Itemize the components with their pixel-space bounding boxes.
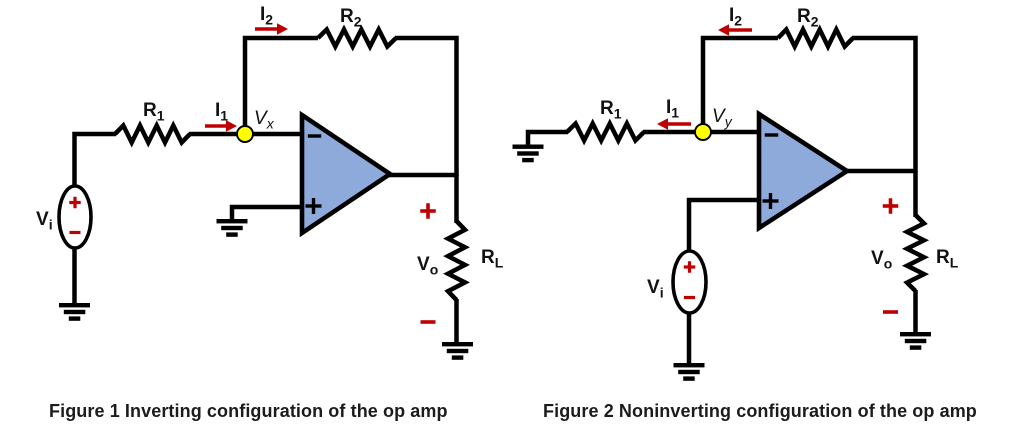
voltage source Vi (fig1) — [59, 186, 91, 248]
ground (left fig2) — [513, 145, 544, 163]
label - polarity Vo (fig2) — [883, 310, 898, 314]
wire: Vi to ground (fig1) — [72, 248, 77, 305]
svg-text:Figure 1 Inverting configurati: Figure 1 Inverting configuration of the … — [49, 401, 448, 421]
wire: top feedback right segment (fig2) — [852, 38, 916, 172]
ground (RL fig2) — [900, 332, 931, 350]
wire: op-amp + input to Vi (fig2) — [689, 200, 759, 252]
ground (Vi fig2) — [674, 363, 705, 381]
label + polarity Vo (fig1) — [420, 203, 436, 219]
resistor R1 (fig1) — [115, 126, 190, 143]
wire: left ground stub to R1 (fig2) — [528, 132, 568, 146]
wire: output down to RL (fig2) — [913, 171, 918, 217]
current arrow I2 fig2 — [718, 24, 752, 36]
wire: top feedback right segment (fig1) — [395, 38, 457, 176]
label - polarity Vo (fig1) — [421, 320, 436, 324]
op-amp U2 (fig2) — [759, 114, 847, 228]
current arrow I1 fig2 — [657, 118, 691, 130]
ground (+input fig1) — [217, 219, 248, 237]
label + polarity Vo (fig2) — [883, 198, 899, 214]
wire: node Vx to op-amp inverting input — [245, 132, 302, 137]
resistor RL (fig1) — [448, 221, 465, 300]
wire: feedback riser from node Vy — [701, 36, 706, 132]
wire: RL to ground (fig2) — [913, 290, 918, 334]
voltage source Vi (fig2) — [673, 251, 706, 313]
ground (Vi fig1) — [59, 303, 90, 321]
current arrow I2 fig1 — [255, 23, 288, 35]
op-amp U1 (fig1) — [302, 115, 390, 233]
wire: R1 to node Vx — [189, 132, 245, 137]
wire: feedback riser from node Vx — [243, 36, 248, 134]
resistor R2 (fig1) — [318, 30, 396, 47]
wire: Vi top to R1 (fig1) — [75, 134, 117, 187]
wire: RL to ground (fig1) — [454, 299, 459, 344]
wire: Vi to ground (fig2) — [687, 313, 692, 365]
resistor R1 (fig2) — [567, 124, 644, 141]
wire: R1 to node Vy — [643, 130, 703, 135]
wire: op-amp output (fig1) — [389, 173, 458, 178]
wire: output down to RL (fig1) — [454, 175, 459, 223]
current arrow I1 fig1 — [205, 120, 237, 132]
wire: node Vy to op-amp inverting input — [703, 130, 759, 135]
resistor RL (fig2) — [907, 215, 924, 291]
node Vx (fig1) — [237, 126, 253, 142]
wire: op-amp output (fig2) — [846, 169, 917, 174]
ground (RL fig1) — [442, 342, 473, 360]
wire: op-amp + input to ground stub (fig1) — [232, 207, 302, 220]
wire: top feedback left segment (fig1) — [243, 36, 318, 41]
node Vy (fig2) — [695, 124, 711, 140]
svg-text:Figure 2 Noninverting configur: Figure 2 Noninverting configuration of t… — [543, 401, 977, 421]
resistor R2 (fig2) — [778, 30, 853, 47]
wire: top feedback left segment (fig2) — [701, 36, 778, 41]
